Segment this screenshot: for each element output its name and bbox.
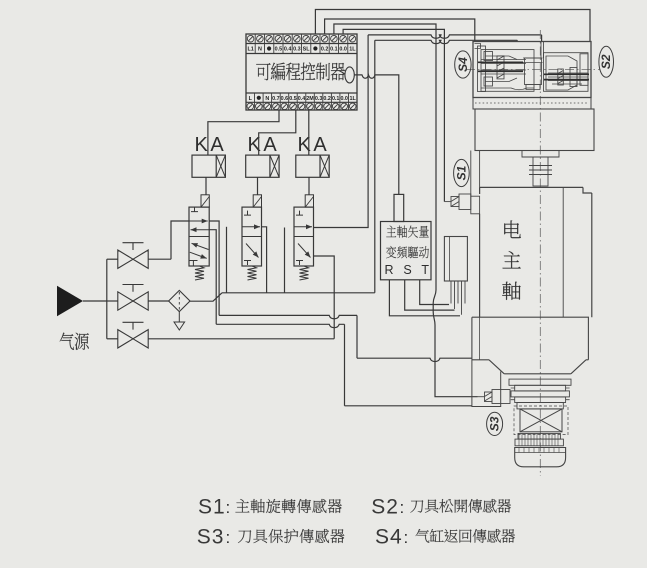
lower rings bbox=[515, 434, 563, 446]
valve V3 bottom position symbols bbox=[296, 261, 303, 266]
svg-text:N: N bbox=[258, 47, 262, 53]
wire relay KA3 to valve V3 solenoid bbox=[308, 177, 310, 195]
air filter (diamond symbol) bbox=[169, 290, 190, 311]
relay KA2 coil box bbox=[246, 155, 279, 177]
svg-text:S1: S1 bbox=[454, 165, 468, 180]
svg-text:S2: S2 bbox=[599, 54, 613, 69]
legend 主轴旋转传感器 bbox=[235, 499, 341, 513]
wire PLC output 0.4 to relay KA2 bbox=[259, 110, 296, 155]
svg-text:1L: 1L bbox=[349, 47, 356, 53]
hose drop into cylinder port A bbox=[541, 35, 543, 42]
svg-text:2M: 2M bbox=[306, 96, 314, 102]
gate valve (bottom shut-off) bbox=[118, 330, 148, 348]
PLC bottom screw terminals (13 circles with slots) bbox=[247, 102, 356, 110]
svg-text::: : bbox=[226, 528, 231, 547]
svg-text:KA: KA bbox=[298, 134, 330, 156]
hose V1-B toward spindle (hop over supply line) bbox=[216, 324, 344, 327]
svg-text:KA: KA bbox=[195, 134, 227, 156]
air cylinder housing (top of spindle) bbox=[473, 42, 591, 98]
svg-text::: : bbox=[226, 498, 231, 517]
wire bus to gate valve 3 bbox=[107, 338, 118, 340]
valve V1 return spring bbox=[195, 266, 204, 280]
sensor label S1 (spindle rotation sensor) bbox=[454, 159, 470, 186]
collet cross-section box with X bbox=[520, 409, 562, 432]
svg-text:0.1: 0.1 bbox=[330, 47, 338, 53]
hose riser V3 to cylinder port A (hops over sensor wires) bbox=[368, 35, 541, 38]
svg-text:S4: S4 bbox=[456, 57, 470, 72]
hose filter output bbox=[190, 293, 222, 301]
solenoid valve V1 (5/2 pneumatic valve) bbox=[189, 207, 209, 266]
svg-text:L: L bbox=[249, 96, 253, 102]
hose valve V1 output B down bbox=[209, 230, 216, 325]
hose valve V1 output A down bbox=[209, 221, 219, 315]
label 可编程控制器 (programmable controller) bbox=[256, 62, 345, 80]
tool holder end cap bbox=[515, 448, 566, 467]
motor terminal connector box bbox=[444, 237, 467, 282]
svg-text:0.1: 0.1 bbox=[332, 96, 340, 102]
hose valve V3 left port down bbox=[284, 228, 286, 293]
hose supply manifold to V2/V3 bbox=[222, 292, 375, 294]
filter drain bbox=[174, 312, 185, 330]
PLC top screw terminals (12 circles with slots) bbox=[247, 34, 355, 44]
connector pins bbox=[451, 281, 465, 315]
valve V2 bottom position symbols bbox=[244, 261, 251, 266]
svg-text:S4: S4 bbox=[375, 525, 403, 548]
svg-text:S1: S1 bbox=[198, 495, 226, 518]
PLC bottom terminal row divider bbox=[246, 101, 357, 103]
wire PLC output 0.6 to relay KA1 bbox=[208, 110, 279, 155]
legend 刀具松开传感器 bbox=[410, 499, 511, 513]
svg-text:S3: S3 bbox=[488, 416, 502, 431]
legend 气缸返回传感器 bbox=[416, 529, 515, 543]
wire PLC input to sensor S3 (long vertical with jog) bbox=[334, 24, 478, 397]
coupling plug between housing and motor body bbox=[522, 151, 559, 187]
label 主轴矢量 bbox=[386, 226, 428, 238]
manifold vertical bus bbox=[106, 259, 108, 339]
svg-text:R S T: R S T bbox=[385, 263, 433, 277]
svg-text:0.5: 0.5 bbox=[289, 96, 297, 102]
sensor S1 probe (spindle rotation sensor) bbox=[444, 194, 479, 214]
valve V2 return spring bbox=[248, 266, 257, 280]
solenoid valve V3 (3/2 pneumatic valve) bbox=[294, 207, 314, 266]
svg-text:0.0: 0.0 bbox=[339, 47, 347, 53]
svg-text:0.3: 0.3 bbox=[315, 96, 323, 102]
hose V1-B drop bbox=[344, 324, 346, 406]
svg-text:S2: S2 bbox=[371, 495, 399, 518]
PLC bottom label row divider bbox=[246, 92, 357, 94]
valve V1 top position symbols bbox=[191, 207, 198, 212]
solenoid valve V2 (3/2 pneumatic valve) bbox=[242, 207, 262, 266]
wire relay KA1 to valve V1 solenoid bbox=[205, 177, 207, 195]
gate valve (top shut-off) bbox=[118, 250, 148, 268]
wire PLC input to sensor S2 (cylinder top right) bbox=[315, 10, 590, 42]
wire PLC input to sensor S1 bbox=[343, 29, 444, 201]
wire up to valve V3 bottom port bbox=[313, 256, 334, 339]
label 气源 (air supply) bbox=[60, 333, 89, 350]
wire air source to manifold bbox=[83, 300, 107, 302]
PLC top label row divider bbox=[246, 53, 357, 55]
cylinder piston rods (dark) bbox=[478, 62, 589, 79]
svg-text:0.6: 0.6 bbox=[281, 96, 289, 102]
wire bus to gate valve 2 bbox=[107, 300, 118, 302]
svg-text:L1: L1 bbox=[247, 47, 253, 53]
svg-text:SL: SL bbox=[303, 47, 311, 53]
wire gate valve 3 to valve V3 supply bbox=[148, 338, 334, 340]
svg-text:S3: S3 bbox=[197, 525, 225, 548]
spindle vertical centerline bbox=[539, 30, 541, 476]
PLC output port ellipse bbox=[345, 67, 354, 83]
valve V1 bottom position symbols bbox=[189, 261, 197, 267]
valve V2 top position symbols bbox=[244, 211, 251, 216]
sensor label S2 (tool unclamp sensor) bbox=[599, 46, 614, 77]
cylinder mounting flange band bbox=[473, 98, 591, 110]
wire PLC output 2M to relay KA3 bbox=[308, 110, 310, 155]
spindle vector inverter drive box 主轴矢量变频驱动 bbox=[381, 222, 432, 280]
hose V1-A to spindle housing (hop over S3 wire) bbox=[357, 358, 472, 361]
wire drive S phase to motor bbox=[405, 280, 455, 310]
relay KA3 coil box bbox=[296, 155, 329, 177]
wire PLC port to drive box (with hops over risers) bbox=[354, 75, 399, 194]
wire gate valve 1 output bbox=[148, 258, 171, 260]
hose V1-A toward spindle (hop over supply line) bbox=[219, 315, 357, 318]
sensor label S3 (tool protection sensor) bbox=[487, 412, 503, 435]
svg-text::: : bbox=[404, 528, 409, 547]
svg-text::: : bbox=[400, 498, 405, 517]
air source symbol 气源 (filled triangle) bbox=[57, 286, 83, 317]
svg-text:KA: KA bbox=[248, 134, 280, 156]
hose drop into cylinder port B bbox=[516, 40, 518, 41]
svg-text:N: N bbox=[265, 96, 269, 102]
hose valve V2 left port down bbox=[226, 227, 228, 293]
S3 sensor mounting block bbox=[472, 360, 501, 407]
svg-text:0.4: 0.4 bbox=[284, 47, 292, 53]
filter element dashed line bbox=[178, 292, 180, 310]
motor body (main housing of 电主轴) bbox=[480, 187, 592, 317]
svg-text:0.0: 0.0 bbox=[340, 96, 348, 102]
spindle upper housing bbox=[475, 109, 594, 151]
wire gate valve 1 to valve V1 left port bbox=[171, 221, 189, 259]
svg-text:0.5: 0.5 bbox=[275, 47, 283, 53]
svg-text:1L: 1L bbox=[350, 96, 357, 102]
legend 刀具保护传感器 bbox=[238, 529, 344, 543]
PLC top terminal row divider bbox=[246, 43, 357, 45]
sensor label S4 (cylinder return sensor) bbox=[455, 51, 471, 78]
flange gasket dotted line bbox=[475, 102, 589, 104]
label 电主轴 (electric spindle), vertical bbox=[502, 220, 521, 299]
tool clamping rings stack bbox=[509, 379, 571, 409]
hose riser V2 to cylinder port B (hops over sensor wires) bbox=[375, 40, 518, 43]
wire gate valve 2 to filter bbox=[148, 300, 168, 302]
svg-text:0.3: 0.3 bbox=[293, 47, 301, 53]
PLC 可编程控制器 outer box bbox=[246, 34, 357, 110]
wire drive R phase to motor bbox=[389, 280, 460, 316]
hose valve V2 output down bbox=[262, 227, 267, 293]
wire bus to gate valve 1 bbox=[107, 258, 118, 260]
sensor S3 probe (tool protection sensor) bbox=[478, 390, 511, 404]
housing left column above S1 sensor bbox=[471, 151, 480, 197]
drive box input connector bbox=[394, 194, 404, 221]
svg-text:0.4: 0.4 bbox=[298, 96, 306, 102]
svg-text:0.7: 0.7 bbox=[272, 96, 280, 102]
hose valve V3 output up riser bbox=[313, 35, 368, 228]
valve V3 top position symbols bbox=[296, 211, 303, 216]
relay KA1 coil box bbox=[192, 155, 225, 177]
cylinder internal piston parts bbox=[475, 42, 589, 92]
wire drive T phase to motor bbox=[420, 280, 449, 305]
valve V3 return spring bbox=[300, 266, 309, 280]
svg-text:0.2: 0.2 bbox=[323, 96, 331, 102]
hose V1-B to spindle bottom block bbox=[345, 405, 472, 407]
PLC bottom terminal labels L N 0.7 0.6 0.5 0.4 2M 0.3 0.2 0.1 0.0 1L bbox=[249, 93, 357, 102]
wire relay KA2 to valve V2 solenoid bbox=[257, 177, 259, 195]
label 变频驱动 bbox=[386, 246, 429, 258]
svg-text:0.2: 0.2 bbox=[321, 47, 329, 53]
PLC top terminal labels L1 N 0.5 0.4 0.3 SL 0.2 0.1 0.0 1L bbox=[247, 44, 356, 54]
gate valve (middle shut-off) bbox=[118, 292, 148, 310]
hose V2 riser up bbox=[374, 40, 376, 292]
hose V1-A drop bbox=[356, 315, 358, 358]
cylinder horizontal centerline bbox=[466, 69, 600, 71]
spindle lower housing bbox=[472, 317, 589, 374]
wire PLC input to sensor S4 (cylinder top left) bbox=[325, 19, 475, 42]
